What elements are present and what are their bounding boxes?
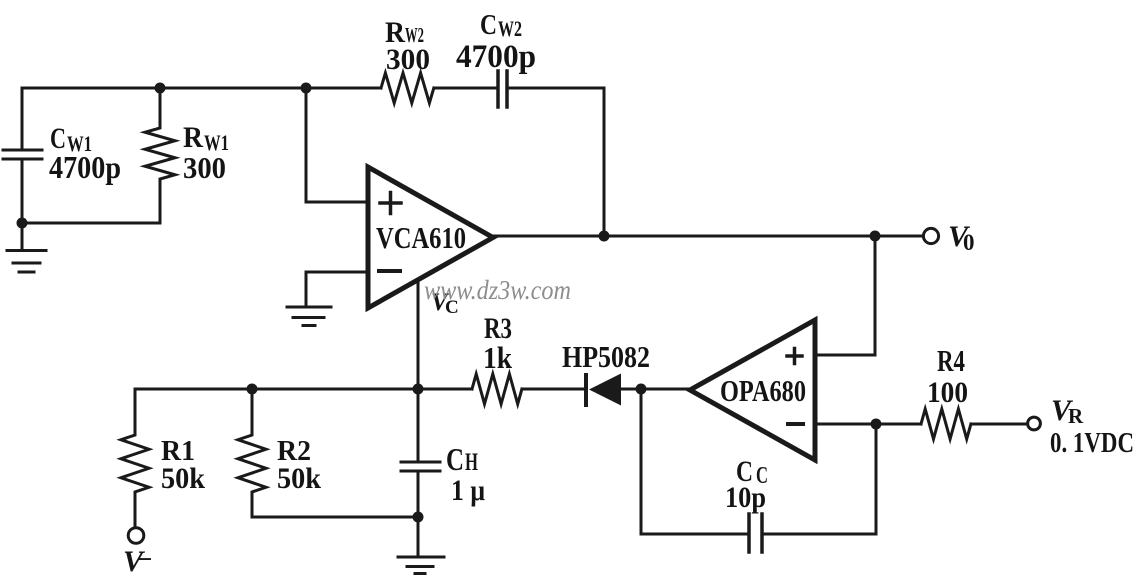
- wire OPA680 plus input: [815, 236, 875, 355]
- label R4: [927, 343, 968, 409]
- capacitor CW2: [498, 71, 507, 107]
- node CW1 bottom: [17, 218, 28, 229]
- label R1: [161, 435, 205, 495]
- resistor R4: [921, 409, 971, 439]
- label CW1: [49, 122, 121, 185]
- plus sign OPA680: [787, 349, 802, 364]
- svg-text:4700p: 4700p: [456, 39, 536, 75]
- svg-text:0. 1VDC: 0. 1VDC: [1050, 427, 1134, 459]
- label V0: [948, 220, 975, 255]
- resistor R3: [472, 374, 522, 404]
- terminal VR: [1028, 417, 1041, 430]
- control wire VC: [417, 280, 420, 389]
- wire VCA610 output: [493, 235, 924, 238]
- diode D1 HP5082 bar: [584, 375, 588, 405]
- capacitor CC: [749, 514, 762, 552]
- node output OPA plus junction: [870, 231, 881, 242]
- ground left: [7, 223, 46, 272]
- wire bias rail: [135, 388, 418, 391]
- svg-text:10p: 10p: [725, 481, 766, 514]
- terminal V0: [923, 228, 938, 243]
- diode D1 HP5082 body: [589, 374, 621, 406]
- label CW2: [456, 9, 536, 75]
- label CC: [725, 455, 768, 514]
- svg-text:R: R: [1068, 404, 1084, 428]
- svg-text:H: H: [465, 449, 478, 476]
- node R2 top: [247, 384, 258, 395]
- svg-text:300: 300: [386, 43, 430, 76]
- svg-text:HP5082: HP5082: [562, 339, 650, 374]
- wire plus input VCA610: [306, 88, 368, 202]
- wire CW2 to output corner: [507, 88, 604, 236]
- wire R2 bottom: [252, 516, 418, 519]
- capacitor CW1: [3, 88, 42, 223]
- wire top rail: [22, 87, 381, 90]
- minus sign OPA680: [788, 422, 803, 426]
- svg-text:C: C: [446, 441, 464, 477]
- resistor RW2: [381, 73, 434, 103]
- label R3: [483, 312, 513, 375]
- wire diode to OPA tip: [622, 388, 690, 391]
- node top junction plus input: [301, 83, 312, 94]
- terminal V-: [128, 528, 144, 544]
- svg-text:100: 100: [927, 376, 968, 409]
- resistor R1: [121, 389, 149, 528]
- svg-text:4700p: 4700p: [49, 149, 121, 185]
- wire CC feedback loop: [641, 389, 876, 534]
- resistor RW1: [145, 88, 175, 223]
- svg-text:50k: 50k: [161, 462, 205, 495]
- capacitor CH: [401, 389, 440, 517]
- svg-text:OPA680: OPA680: [720, 373, 806, 408]
- wire R4 to terminal: [971, 423, 1027, 426]
- node CH bottom: [413, 512, 424, 523]
- svg-text:50k: 50k: [277, 462, 321, 495]
- svg-text:R4: R4: [937, 343, 965, 378]
- resistor R2: [238, 389, 266, 517]
- node output CW2 junction: [599, 231, 610, 242]
- svg-text:1 μ: 1 μ: [451, 474, 485, 507]
- wire minus input VCA610: [306, 272, 368, 307]
- label CH: [446, 441, 485, 507]
- ground VCA610 minus: [287, 307, 331, 326]
- svg-text:www.dz3w.com: www.dz3w.com: [424, 275, 571, 305]
- node VC junction: [413, 384, 424, 395]
- wire bottom of CW1 loop: [22, 222, 160, 225]
- ground CH: [398, 517, 444, 574]
- label R2: [277, 435, 321, 495]
- svg-text:−: −: [137, 544, 152, 574]
- node RW1 top: [155, 83, 166, 94]
- wire RW2 to CW2: [434, 87, 498, 90]
- minus sign VCA610: [379, 269, 400, 273]
- label VC: [431, 289, 459, 318]
- op-amp U2 OPA680: [690, 320, 815, 460]
- svg-text:300: 300: [183, 150, 226, 185]
- op-amp U1 VCA610: [368, 167, 493, 308]
- label RW1: [183, 121, 229, 185]
- label V-: [123, 544, 152, 578]
- node diode CC junction: [636, 384, 647, 395]
- label VR: [1050, 394, 1134, 459]
- wire R3 to diode: [522, 388, 586, 391]
- wire OPA minus to R4: [815, 423, 921, 426]
- svg-text:C: C: [480, 9, 497, 41]
- svg-text:0: 0: [963, 230, 975, 255]
- node R4 CC junction: [871, 419, 882, 430]
- wire R3 left: [418, 388, 472, 391]
- plus sign VCA610: [380, 193, 401, 214]
- label RW2: [385, 16, 430, 76]
- svg-text:W2: W2: [498, 16, 522, 41]
- svg-text:1k: 1k: [483, 340, 513, 375]
- svg-text:VCA610: VCA610: [376, 220, 466, 255]
